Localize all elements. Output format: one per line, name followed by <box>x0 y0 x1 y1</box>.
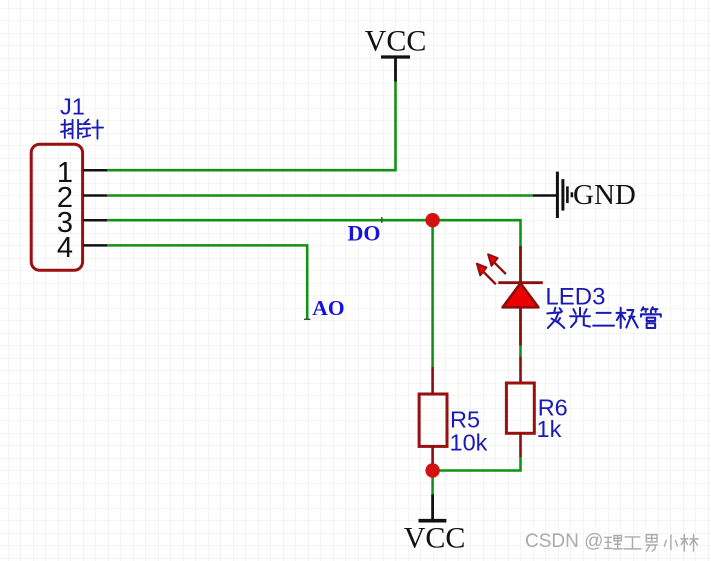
J1 pin 4 stub <box>83 244 107 247</box>
LED3 emission arrow 1 (lower-left) <box>477 264 496 285</box>
LED3 cathode bar <box>498 281 543 284</box>
LED3 value label 发光二极管 (light emitting diode) <box>547 307 660 328</box>
wire LED cathode pin to R6 top pin <box>519 346 522 357</box>
wire R5 bottom junction to R6 bottom <box>433 457 521 471</box>
LED3 triangle (anode up) <box>503 283 539 307</box>
wire AO dangling end tick <box>304 318 310 320</box>
ground symbol GND: lead <box>533 194 556 197</box>
junction node DO (wire junction dot) <box>425 213 439 227</box>
svg-text:4: 4 <box>57 232 73 264</box>
power flag VCC bottom: bar <box>419 519 447 523</box>
power flag VCC top: bar <box>381 55 410 58</box>
power flag VCC top: stem <box>394 57 397 82</box>
svg-text:VCC: VCC <box>365 24 427 57</box>
svg-text:AO: AO <box>312 296 344 320</box>
resistor R6 top pin <box>519 357 522 384</box>
ground symbol GND: bar 2 <box>561 179 564 211</box>
resistor R6 body <box>506 383 534 433</box>
LED3 bottom (anode) pin <box>519 307 522 346</box>
wire pin1 to VCC (net VCC) <box>107 81 396 170</box>
resistor R6 bottom pin <box>519 433 522 457</box>
resistor R5 top pin <box>431 367 434 394</box>
svg-text:J1: J1 <box>60 94 85 120</box>
power flag VCC bottom: stem <box>431 495 434 521</box>
J1 value label 排针 (pin header) <box>61 119 103 138</box>
junction node bottom VCC (wire junction dot) <box>425 463 439 477</box>
wire junction to bottom VCC flag <box>431 471 434 496</box>
resistor R5 body <box>419 394 447 446</box>
svg-text:1k: 1k <box>537 416 562 442</box>
J1 pin 3 stub <box>83 219 107 222</box>
ground symbol GND: bar 3 <box>566 186 569 203</box>
svg-text:DO: DO <box>348 221 381 246</box>
LED3 emission arrow 2 (upper-right) <box>488 254 506 274</box>
wire pin2 to GND (net GND) <box>107 194 533 197</box>
svg-text:CSDN @: CSDN @ <box>525 531 603 552</box>
svg-text:VCC: VCC <box>404 521 466 554</box>
svg-text:10k: 10k <box>450 430 488 456</box>
LED3 top (cathode) pin <box>519 246 522 283</box>
net label DO anchor tick <box>381 217 383 223</box>
resistor R5 bottom pin <box>431 446 434 470</box>
svg-text:LED3: LED3 <box>545 283 605 310</box>
svg-text:GND: GND <box>573 179 636 211</box>
ground symbol GND: bar 1 <box>556 172 559 218</box>
wire DO junction down to R5 <box>431 220 434 367</box>
connector J1 body <box>31 144 82 270</box>
wire pin3 net DO to LED <box>107 220 521 246</box>
J1 pin 1 stub <box>83 169 107 172</box>
J1 pin 2 stub <box>83 194 107 197</box>
wire pin4 net AO <box>107 245 307 319</box>
ground symbol GND: bar 4 <box>571 192 574 197</box>
